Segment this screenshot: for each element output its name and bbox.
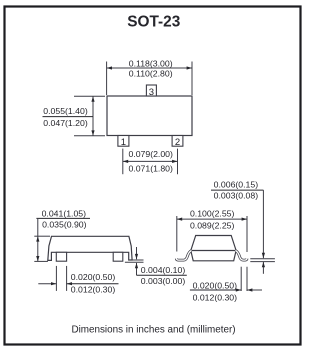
top view body (107, 96, 192, 136)
svg-text:3: 3 (149, 87, 154, 98)
dimension 0.079(2.00)/0.071(1.80) pin spacing (123, 149, 178, 175)
pin 2 pad (172, 136, 183, 149)
end view right lead (gull wing) (235, 251, 247, 261)
svg-text:0.047(1.20): 0.047(1.20) (43, 118, 88, 128)
svg-text:Dimensions in inches and (mill: Dimensions in inches and (millimeter) (71, 325, 235, 336)
svg-text:0.055(1.40): 0.055(1.40) (43, 106, 88, 116)
svg-text:0.041(1.05): 0.041(1.05) (42, 209, 87, 219)
svg-text:0.020(0.50): 0.020(0.50) (193, 280, 238, 290)
dimension 0.055(1.40)/0.047(1.20) top view height (43, 96, 106, 136)
svg-text:0.004(0.10): 0.004(0.10) (141, 265, 186, 275)
dimension 0.020(0.50)/0.012(0.30) front lead width (38, 266, 118, 295)
svg-text:0.089(2.25): 0.089(2.25) (190, 220, 235, 230)
svg-text:0.110(2.80): 0.110(2.80) (129, 68, 173, 78)
title SOT-23 (127, 13, 180, 30)
pin 3 pad (146, 85, 156, 98)
dimension 0.118(3.00)/0.110(2.80) top width (107, 58, 192, 95)
svg-text:0.100(2.55): 0.100(2.55) (190, 208, 235, 218)
svg-text:0.006(0.15): 0.006(0.15) (214, 180, 259, 190)
dimension 0.006(0.15)/0.003(0.08) lead thickness (211, 180, 275, 274)
svg-text:1: 1 (121, 137, 126, 148)
dimension 0.041(1.05)/0.035(0.90) package height (34, 209, 90, 262)
dimension 0.100(2.55)/0.089(2.25) lead span (177, 208, 247, 252)
svg-text:0.035(0.90): 0.035(0.90) (42, 220, 87, 230)
svg-text:0.118(3.00): 0.118(3.00) (129, 58, 173, 68)
pin 1 pad (118, 136, 129, 149)
svg-text:2: 2 (175, 137, 180, 148)
end view left lead (gull wing) (176, 251, 191, 261)
svg-text:0.012(0.30): 0.012(0.30) (71, 285, 116, 295)
front view left leg (pin 1) (56, 252, 66, 261)
footer note (71, 325, 235, 336)
svg-text:0.003(0.00): 0.003(0.00) (141, 276, 186, 286)
dimension 0.020(0.50)/0.012(0.30) foot length (190, 267, 262, 303)
svg-text:0.079(2.00): 0.079(2.00) (128, 149, 173, 159)
front view body (left lower view) (48, 236, 132, 260)
svg-text:0.020(0.50): 0.020(0.50) (71, 272, 116, 282)
svg-text:0.003(0.08): 0.003(0.08) (214, 190, 259, 200)
svg-text:0.012(0.30): 0.012(0.30) (193, 292, 238, 302)
svg-text:0.071(1.80): 0.071(1.80) (128, 164, 173, 174)
front view right leg (pin 2) (113, 252, 123, 261)
svg-text:SOT-23: SOT-23 (127, 13, 180, 30)
end view body (right lower view) (191, 236, 236, 261)
dimension 0.004(0.10)/0.003(0.00) standoff (125, 247, 187, 286)
